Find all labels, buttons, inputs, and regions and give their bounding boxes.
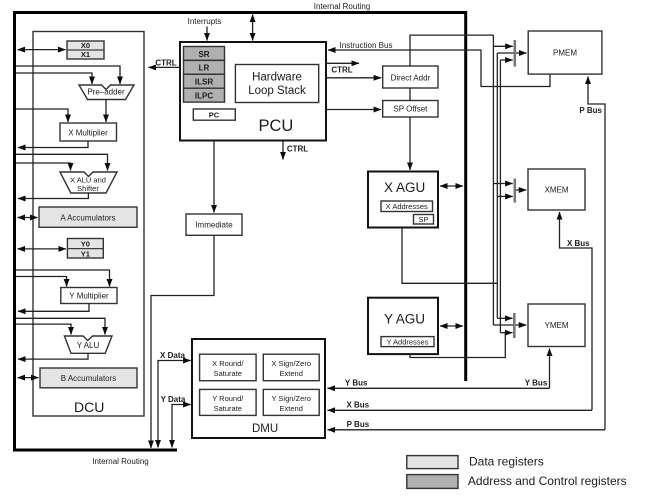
wire A accumulators to routing (double arrow) — [18, 217, 38, 219]
wire v3 to YMEM bar — [500, 332, 512, 334]
svg-text:X AGU: X AGU — [384, 180, 425, 195]
svg-text:CTRL: CTRL — [155, 58, 176, 67]
XMEM address merge bar — [513, 179, 516, 203]
wire X multiplier output to routing — [18, 141, 88, 148]
svg-text:ILSR: ILSR — [195, 78, 213, 87]
block Y Multiplier — [61, 288, 117, 304]
wire P bus to PMEM — [588, 77, 605, 430]
address bus v3 (Y AGU) — [499, 60, 501, 333]
block X Sign/Zero Extend — [263, 354, 319, 381]
svg-text:Pre–adder: Pre–adder — [87, 88, 125, 97]
svg-text:Y AGU: Y AGU — [384, 312, 425, 327]
register Y Addresses — [381, 337, 434, 347]
internal routing right bus — [464, 11, 467, 381]
svg-text:Hardware: Hardware — [252, 72, 302, 84]
block X AGU — [368, 172, 438, 228]
internal routing top bus — [13, 11, 467, 14]
wire Y AGU output to bus v3 — [410, 333, 505, 358]
wire P bus to DMU — [328, 429, 606, 431]
pre-adder — [79, 85, 134, 100]
internal routing bottom bus — [13, 449, 177, 452]
wire X bus to DMU — [328, 409, 593, 411]
svg-text:DMU: DMU — [252, 423, 278, 435]
block X Round/Saturate — [200, 354, 257, 381]
block Y Sign/Zero Extend — [263, 389, 319, 415]
svg-text:X Bus: X Bus — [346, 400, 369, 409]
wire X0/X1 to internal routing (double arrow) — [18, 49, 66, 51]
svg-text:Y Round/: Y Round/ — [212, 394, 244, 403]
address bus v1 (direct addr) — [492, 35, 494, 325]
wire CTRL PCU to DCU — [149, 66, 181, 68]
wire direct addr up to address bus v1 — [410, 35, 493, 66]
alu X ALU and Shifter — [60, 172, 117, 193]
block Immediate — [186, 214, 242, 235]
svg-text:X Addresses: X Addresses — [386, 202, 428, 211]
wire v2 through PMEM bar to PMEM — [497, 52, 526, 54]
block Y AGU — [368, 298, 438, 354]
svg-text:Direct Addr: Direct Addr — [391, 73, 431, 82]
svg-text:CTRL: CTRL — [331, 65, 352, 74]
wire SP offset to X AGU — [409, 117, 411, 170]
svg-text:B Accumulators: B Accumulators — [61, 374, 117, 383]
svg-text:Loop Stack: Loop Stack — [248, 85, 306, 97]
svg-text:SP: SP — [418, 215, 428, 224]
svg-text:Y Bus: Y Bus — [525, 378, 548, 387]
register SP — [414, 215, 434, 225]
wire immediate to bottom routing — [151, 235, 214, 448]
block XMEM — [528, 169, 585, 210]
svg-text:Interrupts: Interrupts — [188, 17, 222, 26]
svg-text:Address and Control registers: Address and Control registers — [468, 474, 627, 488]
svg-text:P Bus: P Bus — [347, 420, 370, 429]
svg-text:P Bus: P Bus — [579, 106, 602, 115]
svg-text:Instruction Bus: Instruction Bus — [340, 41, 393, 50]
svg-text:XMEM: XMEM — [545, 186, 569, 195]
wire routing to Y multiplier left input — [16, 277, 67, 287]
svg-text:X Multiplier: X Multiplier — [68, 129, 108, 138]
svg-text:Y Bus: Y Bus — [345, 378, 368, 387]
wire B accumulators to routing (double arrow) — [18, 377, 39, 379]
register B Accumulators — [40, 368, 137, 388]
wire Y data routing to DMU — [172, 405, 191, 448]
svg-text:X Bus: X Bus — [567, 239, 590, 248]
wire routing to X ALU right input — [16, 154, 108, 170]
wire PCU to direct addr — [326, 77, 381, 79]
wire PCU to top routing (double arrow) — [252, 15, 254, 41]
svg-text:DCU: DCU — [74, 399, 104, 415]
wire v2 to XMEM bar — [497, 195, 512, 197]
wire Y AGU to right routing (double arrow) — [440, 325, 463, 327]
register SR — [184, 47, 225, 61]
svg-text:X Round/: X Round/ — [212, 359, 244, 368]
block Y Round/Saturate — [200, 389, 257, 415]
svg-text:X Sign/Zero: X Sign/Zero — [271, 359, 311, 368]
wire X ALU output to routing — [18, 193, 88, 199]
register ILPC — [184, 88, 225, 102]
svg-text:PCU: PCU — [259, 117, 294, 135]
wire routing to Y multiplier right input — [16, 270, 110, 287]
register X0/X1 — [67, 41, 104, 59]
register ILSR — [184, 74, 225, 88]
register PC — [193, 109, 235, 120]
wire routing to Y ALU left input — [16, 324, 71, 334]
PMEM address merge bar — [513, 40, 516, 67]
wire Y ALU output to routing — [18, 353, 88, 359]
svg-text:Data registers: Data registers — [469, 455, 544, 469]
wire XMEM bar to XMEM — [515, 189, 527, 191]
svg-text:YMEM: YMEM — [545, 321, 569, 330]
svg-text:LR: LR — [199, 64, 210, 73]
svg-text:SP Offset: SP Offset — [393, 104, 428, 113]
svg-text:Internal Routing: Internal Routing — [92, 457, 148, 466]
register Y0/Y1 — [67, 239, 103, 259]
wire Y0/Y1 to routing (double arrow) — [18, 248, 66, 250]
wire CTRL right from PCU — [326, 62, 359, 64]
register X Addresses — [381, 201, 433, 212]
block Hardware Loop Stack — [235, 65, 318, 103]
svg-text:PMEM: PMEM — [553, 49, 577, 58]
svg-text:Y Multiplier: Y Multiplier — [69, 291, 109, 300]
wire X AGU output to bus v2 — [402, 228, 497, 284]
wire X bus to XMEM — [560, 212, 593, 410]
svg-text:CTRL: CTRL — [287, 145, 308, 154]
wire Y multiplier output to routing — [18, 304, 89, 312]
block DCU — [33, 32, 144, 417]
address bus v2 (X AGU) — [496, 53, 498, 318]
block Direct Addr — [383, 66, 438, 88]
svg-text:Y0: Y0 — [81, 239, 90, 248]
legend address and control registers swatch — [407, 475, 458, 489]
wire pre-adder to X multiplier — [105, 100, 107, 123]
svg-text:Extend: Extend — [280, 369, 303, 378]
svg-text:A Accumulators: A Accumulators — [60, 213, 115, 222]
block SP Offset — [383, 101, 438, 118]
wire instruction bus PMEM to PCU — [328, 50, 550, 87]
wire routing to X ALU left input — [16, 163, 71, 171]
svg-text:X Data: X Data — [160, 351, 185, 360]
wire routing to Y ALU right input — [16, 318, 105, 334]
svg-text:Internal Routing: Internal Routing — [314, 2, 370, 11]
wire v3 to PMEM bar — [500, 59, 512, 61]
svg-text:Extend: Extend — [280, 404, 303, 413]
wire routing to pre-adder right input — [16, 66, 120, 84]
svg-text:Saturate: Saturate — [214, 369, 242, 378]
block PCU — [180, 42, 326, 141]
internal routing left bus — [13, 11, 16, 452]
wire v2 to YMEM bar — [497, 317, 512, 319]
svg-text:Y ALU: Y ALU — [77, 341, 100, 350]
wire PCU to SP offset — [326, 109, 381, 111]
svg-text:Shifter: Shifter — [77, 184, 99, 193]
wire routing to X multiplier left input — [16, 109, 68, 122]
wire X AGU to right routing (double arrow) — [440, 185, 463, 187]
wire Y bus to YMEM — [549, 349, 551, 389]
block DMU — [192, 339, 325, 438]
register LR — [184, 60, 225, 74]
wire routing to pre-adder left input — [16, 73, 92, 84]
YMEM address merge bar — [513, 313, 516, 338]
wire CTRL down from PCU — [282, 141, 284, 160]
block PMEM — [528, 31, 602, 74]
svg-text:ILPC: ILPC — [195, 92, 213, 101]
block YMEM — [528, 304, 585, 347]
wire PCU to immediate — [213, 141, 215, 213]
svg-text:Y1: Y1 — [81, 249, 90, 258]
wire v1 to XMEM bar — [493, 183, 512, 185]
svg-text:Y Sign/Zero: Y Sign/Zero — [271, 394, 310, 403]
block X Multiplier — [60, 123, 117, 141]
legend data registers swatch — [407, 456, 458, 469]
wire v1 to PMEM bar — [493, 45, 512, 47]
wire X data routing to DMU — [158, 361, 191, 448]
wire Y bus to DMU — [328, 387, 550, 389]
register A Accumulators — [39, 207, 137, 227]
svg-text:Y Data: Y Data — [161, 395, 186, 404]
svg-text:X0: X0 — [81, 41, 90, 50]
svg-text:X1: X1 — [81, 50, 90, 59]
svg-text:Immediate: Immediate — [195, 221, 233, 230]
svg-text:SR: SR — [198, 50, 209, 59]
wire v1 through YMEM bar to YMEM — [493, 324, 526, 326]
svg-text:PC: PC — [209, 111, 220, 120]
wire interrupts into PCU — [206, 27, 208, 41]
alu Y ALU — [64, 336, 112, 353]
svg-text:Y Addresses: Y Addresses — [387, 338, 429, 347]
svg-text:Saturate: Saturate — [214, 404, 242, 413]
wire direct addr to SP offset — [409, 88, 411, 101]
